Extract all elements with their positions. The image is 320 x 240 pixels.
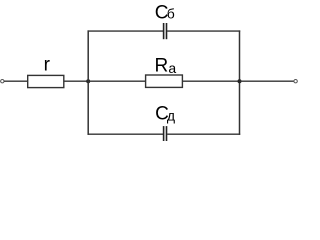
wire top rail right <box>167 30 240 32</box>
svg-text:r: r <box>44 54 51 75</box>
svg-text:a: a <box>168 60 176 76</box>
label Ra <box>155 55 177 76</box>
label Cd <box>155 104 175 125</box>
svg-text:R: R <box>155 55 169 76</box>
svg-text:б: б <box>167 6 175 22</box>
terminal left <box>1 80 4 83</box>
wire top rail left <box>88 30 164 32</box>
resistor Ra <box>146 75 183 87</box>
resistor r <box>28 75 64 87</box>
wire Ra to node B <box>182 80 239 82</box>
capacitor C6 plates <box>163 23 165 39</box>
wire bottom rail left <box>88 133 164 135</box>
label C6 <box>155 2 175 23</box>
node A (left junction) <box>86 79 90 83</box>
wire node A to Ra <box>88 80 145 82</box>
svg-text:д: д <box>167 107 175 123</box>
left bus wire <box>87 30 89 134</box>
wire r to node A <box>64 80 88 82</box>
right bus wire <box>239 30 241 134</box>
wire output <box>240 80 294 82</box>
terminal right <box>294 80 297 83</box>
wire input to r <box>4 80 28 82</box>
node B (right junction) <box>238 79 242 83</box>
capacitor Cd plates <box>163 126 165 141</box>
wire bottom rail right <box>167 133 240 135</box>
